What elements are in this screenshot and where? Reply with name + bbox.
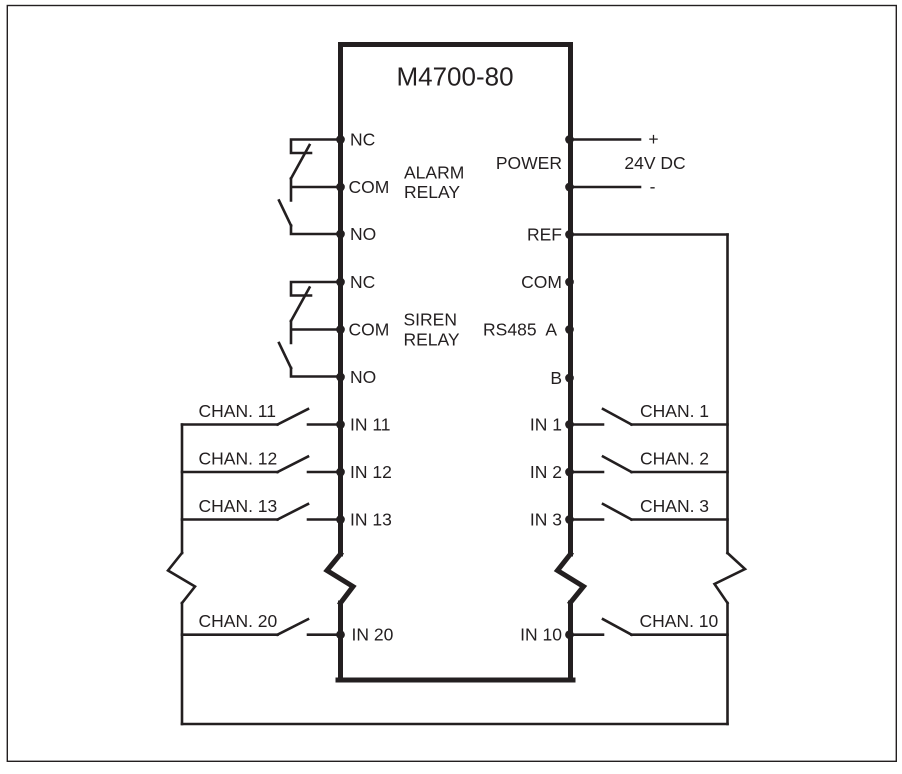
switch CHAN. 11 stub to IN 11 [308, 423, 341, 426]
break (zigzag) on right outer bus [715, 553, 746, 603]
switch CHAN. 11 arm [278, 409, 309, 425]
svg-text:RELAY: RELAY [404, 182, 460, 202]
switch CHAN. 1 wire [632, 423, 728, 426]
power - wire [570, 186, 641, 189]
alarm relay NO open contact arm [279, 201, 291, 226]
terminal dot IN 20 [336, 630, 345, 639]
switch CHAN. 10 wire [632, 633, 728, 636]
svg-text:COM: COM [349, 177, 390, 197]
svg-text:CHAN. 3: CHAN. 3 [640, 496, 709, 516]
switch CHAN. 12 stub to IN 12 [308, 471, 341, 474]
svg-text:CHAN. 2: CHAN. 2 [640, 449, 709, 469]
terminal dot COM (siren relay) [336, 325, 345, 334]
siren relay NC contact feed wire [291, 282, 341, 296]
svg-text:COM: COM [521, 272, 562, 292]
svg-text:CHAN. 12: CHAN. 12 [199, 449, 278, 469]
switch CHAN. 10 stub from IN 10 [570, 633, 604, 636]
terminal dot NO (alarm relay) [336, 230, 345, 239]
svg-text:IN 20: IN 20 [352, 625, 394, 645]
terminal dot POWER - [565, 183, 574, 192]
svg-text:CHAN. 20: CHAN. 20 [199, 611, 278, 631]
svg-text:NO: NO [350, 224, 376, 244]
left outer bus wire (upper) [181, 425, 184, 554]
switch CHAN. 20 arm [278, 619, 309, 635]
svg-text:IN 13: IN 13 [350, 510, 392, 530]
svg-text:B: B [550, 368, 562, 388]
svg-text:REF: REF [527, 225, 562, 245]
switch CHAN. 10 arm [603, 619, 632, 635]
terminal dot RS485 B [565, 374, 574, 383]
switch CHAN. 1 arm [603, 409, 632, 425]
siren relay COM feed wire [291, 321, 341, 343]
break (zigzag) on device box right edge [558, 554, 584, 603]
alarm relay COM feed wire [291, 179, 341, 201]
right outer bus wire (upper) [726, 235, 729, 554]
switch CHAN. 13 wire [182, 518, 278, 521]
switch CHAN. 20 stub to IN 20 [308, 633, 341, 636]
svg-text:24V DC: 24V DC [624, 153, 685, 173]
break (zigzag) on left outer bus [168, 553, 195, 603]
terminal dot COM (right) [565, 278, 574, 287]
switch CHAN. 11 wire [182, 423, 278, 426]
bottom return wire [182, 723, 728, 726]
siren relay NO open contact arm [279, 343, 291, 368]
switch CHAN. 12 arm [278, 457, 309, 473]
alarm relay NO feed wire [291, 226, 341, 235]
terminal dot IN 2 [565, 468, 574, 477]
device box M4700-80 outline [338, 45, 573, 681]
svg-text:IN 12: IN 12 [350, 462, 392, 482]
switch CHAN. 3 stub from IN 3 [570, 518, 604, 521]
switch CHAN. 20 wire [182, 633, 278, 636]
terminal dot NC (alarm relay) [336, 135, 345, 144]
switch CHAN. 13 arm [278, 504, 309, 520]
svg-text:ALARM: ALARM [404, 163, 464, 183]
svg-text:CHAN. 11: CHAN. 11 [199, 401, 276, 421]
switch CHAN. 2 wire [632, 471, 728, 474]
terminal dot NC (siren relay) [336, 278, 345, 287]
alarm relay NC contact feed wire [291, 140, 341, 154]
terminal dot IN 10 [565, 630, 574, 639]
terminal dot IN 11 [336, 420, 345, 429]
left outer bus wire (lower) [181, 603, 184, 724]
svg-text:COM: COM [349, 320, 390, 340]
terminal dot IN 1 [565, 420, 574, 429]
svg-text:-: - [650, 177, 656, 197]
svg-text:NO: NO [350, 367, 376, 387]
svg-text:IN 11: IN 11 [350, 415, 391, 435]
svg-text:SIREN: SIREN [404, 310, 457, 330]
alarm relay moving contact arm (on NC) [291, 145, 310, 179]
terminal dot COM (alarm relay) [336, 183, 345, 192]
svg-text:+: + [648, 129, 658, 149]
switch CHAN. 13 stub to IN 13 [308, 518, 341, 521]
power + wire [570, 138, 641, 141]
svg-text:IN 10: IN 10 [520, 625, 562, 645]
right outer bus wire (lower) [726, 603, 729, 724]
terminal dot REF [565, 230, 574, 239]
siren relay NO feed wire [291, 368, 341, 377]
svg-text:IN 3: IN 3 [530, 510, 562, 530]
svg-text:NC: NC [350, 272, 375, 292]
terminal dot IN 12 [336, 468, 345, 477]
svg-text:IN 1: IN 1 [530, 415, 562, 435]
svg-text:CHAN. 10: CHAN. 10 [640, 611, 719, 631]
terminal dot NO (siren relay) [336, 373, 345, 382]
svg-text:RELAY: RELAY [404, 330, 460, 350]
switch CHAN. 1 stub from IN 1 [570, 423, 604, 426]
svg-text:CHAN. 1: CHAN. 1 [640, 401, 709, 421]
switch CHAN. 12 wire [182, 471, 278, 474]
switch CHAN. 2 stub from IN 2 [570, 471, 604, 474]
svg-text:M4700-80: M4700-80 [396, 62, 513, 92]
svg-text:NC: NC [350, 130, 375, 150]
switch CHAN. 3 arm [603, 504, 632, 520]
switch CHAN. 2 arm [603, 457, 632, 473]
terminal dot RS485 A [565, 325, 574, 334]
svg-text:CHAN. 13: CHAN. 13 [199, 496, 278, 516]
terminal dot IN 13 [336, 515, 345, 524]
terminal dot IN 3 [565, 515, 574, 524]
break (zigzag) on device box left edge [327, 554, 353, 603]
svg-text:RS485 A: RS485 A [483, 320, 557, 340]
REF wire to right bus [570, 233, 728, 236]
svg-text:IN 2: IN 2 [530, 462, 562, 482]
terminal dot POWER + [565, 135, 574, 144]
svg-text:POWER: POWER [496, 153, 562, 173]
siren relay moving contact arm (on NC) [291, 288, 310, 322]
switch CHAN. 3 wire [632, 518, 728, 521]
